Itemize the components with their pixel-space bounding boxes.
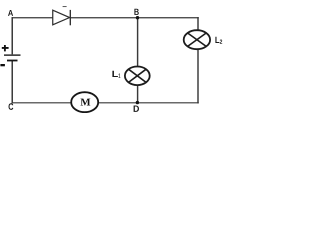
node D junction dot	[136, 101, 139, 104]
wire top-left segment A to diode	[12, 17, 54, 19]
node A label	[8, 10, 13, 16]
wire bottom-left segment C to motor	[12, 102, 72, 104]
motor M1 letter	[81, 99, 91, 106]
wire bottom-right segment motor to corner	[99, 102, 199, 104]
motor M1 body	[71, 92, 98, 112]
battery B1 short negative plate	[7, 60, 18, 62]
diode polarity minus label	[63, 6, 67, 7]
wire right upper segment corner to lamp L2	[197, 17, 199, 30]
battery B1 long positive plate	[4, 54, 21, 56]
diode D1 cathode bar	[69, 10, 71, 25]
battery plus label	[2, 45, 9, 51]
lamp L1 label	[112, 71, 118, 77]
node C label	[9, 103, 14, 110]
wire middle upper segment B to lamp L1	[137, 17, 139, 66]
node B junction dot	[136, 16, 139, 19]
node B label	[134, 9, 138, 15]
wire left lower segment battery to C	[11, 61, 13, 104]
lamp L2 body	[184, 30, 210, 49]
lamp L2 cross	[188, 33, 207, 46]
node D label	[134, 106, 139, 112]
lamp L1 body	[125, 67, 150, 86]
lamp L1 cross	[129, 69, 147, 82]
wire middle lower segment lamp L1 to D	[137, 86, 139, 104]
battery minus label	[0, 64, 5, 66]
wire top segment diode to top-right corner	[70, 17, 198, 19]
wire left upper segment A to battery	[11, 17, 13, 54]
diode D1 triangle	[53, 10, 70, 25]
wire right lower segment lamp L2 to bottom corner	[197, 50, 199, 104]
lamp L2 label	[215, 37, 219, 43]
